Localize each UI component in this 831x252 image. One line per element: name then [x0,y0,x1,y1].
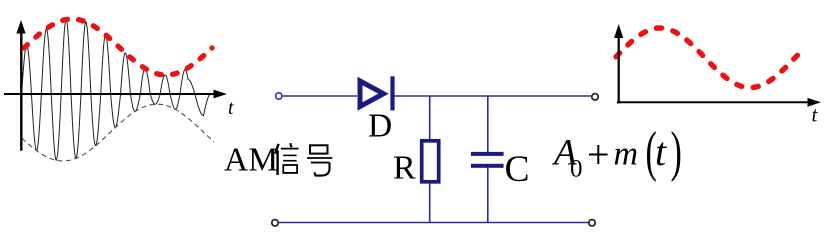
svg-text:t: t [655,129,667,174]
svg-text:D: D [368,108,392,145]
svg-text:R: R [393,150,416,187]
svg-text:+: + [587,132,610,177]
svg-text:0: 0 [570,156,583,183]
svg-text:C: C [505,149,530,190]
svg-text:m: m [614,136,639,173]
svg-text:): ) [671,121,682,183]
svg-text:AM: AM [224,142,278,179]
svg-text:t: t [228,97,234,119]
